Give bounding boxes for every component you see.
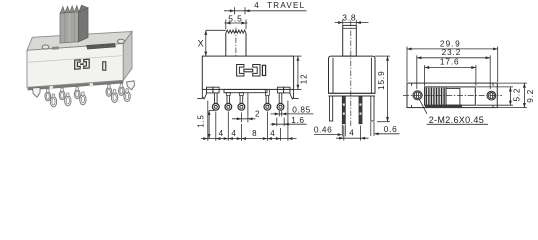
svg-text:4 TRAVEL: 4 TRAVEL <box>254 1 305 10</box>
top view: right screw hole <box>487 91 496 100</box>
isometric view: switch body front face <box>27 44 123 88</box>
isometric view: left mounting ear <box>33 87 41 97</box>
front view: knob right side <box>245 33 247 56</box>
top view dimension: 29.9 overall length <box>406 47 408 83</box>
side view: terminal pin left <box>342 96 345 124</box>
isometric view: right mounting ear <box>127 81 135 90</box>
svg-text:2: 2 <box>255 108 260 118</box>
isometric view: front row terminal pins <box>50 97 56 107</box>
isometric view: screw hole right on top face <box>118 39 125 43</box>
side view: left mounting ear below base <box>330 96 333 121</box>
front view dimension: X height <box>206 29 226 31</box>
top view: 2-M2.6X0.45 thread callout leader <box>419 100 427 114</box>
front view dimension: pin pitch 4 4 8 4 <box>201 138 297 140</box>
svg-text:0.6: 0.6 <box>384 124 398 134</box>
isometric view: cover seam line on front face <box>27 56 123 63</box>
svg-text:5.2: 5.2 <box>513 88 522 102</box>
front view: right ear bent foot <box>294 89 299 98</box>
top view: knob smooth section <box>446 88 460 105</box>
side view: knob <box>343 25 357 56</box>
svg-text:4: 4 <box>270 129 275 138</box>
top view: left screw hole <box>413 91 422 100</box>
front view dimension: 2 offset <box>240 112 242 122</box>
svg-text:5.5: 5.5 <box>228 13 243 23</box>
isometric view: knob shaft right side face <box>79 8 89 42</box>
front view: center base bar <box>224 89 267 92</box>
front view: right mounting ear tab <box>277 87 283 93</box>
isometric view: slot segment left of knob <box>52 46 59 49</box>
side view dimension: 3.8 knob width <box>342 20 344 25</box>
front view dimension: 0.85 pin thickness <box>278 111 280 117</box>
svg-text:X: X <box>198 39 204 49</box>
front view dimension: 5.5 knob width <box>225 20 227 30</box>
front view: knob centerline <box>235 28 237 57</box>
isometric view: switch body top face <box>27 32 132 51</box>
top view dimension: 5.2 slot width <box>476 86 513 88</box>
front view dimension: 1.5 pin length <box>209 109 215 111</box>
svg-text:17.6: 17.6 <box>440 58 460 67</box>
svg-text:12: 12 <box>299 73 308 84</box>
isometric view: I marking on front face <box>103 62 106 70</box>
svg-text:2-M2.6X0.45: 2-M2.6X0.45 <box>429 115 484 125</box>
isometric view: switch body right end face <box>123 32 132 81</box>
isometric view: knob serrated top teeth <box>60 7 65 14</box>
svg-text:3.8: 3.8 <box>342 12 356 22</box>
front view: switch body outline <box>202 56 293 89</box>
front view dimension: 1.6 eyelet width <box>276 118 278 127</box>
front view dimension: 4 TRAVEL <box>224 10 307 12</box>
front view: left ear bent foot <box>197 89 202 98</box>
side view: right mounting ear below base <box>371 96 374 121</box>
top view: slot opening <box>425 87 476 105</box>
svg-text:4: 4 <box>219 129 224 138</box>
isometric view: knob shaft front face <box>60 12 79 43</box>
svg-text:4: 4 <box>231 129 236 138</box>
front view: knob serrated top edge <box>226 30 246 33</box>
top view dimension: 9.2 body width <box>498 82 527 84</box>
front view dimension: 12 body height <box>294 55 302 57</box>
svg-text:0.85: 0.85 <box>292 105 311 115</box>
top view dimension: 23.2 hole spacing <box>416 55 418 89</box>
side view: body outline <box>329 56 376 93</box>
front view: knob left side <box>225 33 227 56</box>
top view dimension: 17.6 slot length <box>424 65 426 86</box>
top view: body outline <box>407 83 497 108</box>
svg-text:1.5: 1.5 <box>196 114 205 127</box>
side view dimension: 15.9 total height <box>375 55 390 57</box>
isometric view: actuator slot on top face <box>87 43 116 49</box>
front view: I marking <box>262 65 265 75</box>
isometric view: screw hole left on top face <box>42 45 49 49</box>
svg-text:4: 4 <box>349 127 354 137</box>
top view: horizontal centerline <box>403 94 502 96</box>
side view: terminal pin right <box>359 96 362 124</box>
isometric view: back row terminal pins <box>45 92 51 101</box>
front view: H marking <box>237 65 244 77</box>
side view: inner wall lines <box>332 58 334 94</box>
front view: terminal pins with eyelets <box>214 93 216 103</box>
svg-text:9.2: 9.2 <box>526 89 535 103</box>
svg-text:1.6: 1.6 <box>291 115 304 125</box>
front view: left mounting ear tab <box>207 87 213 93</box>
svg-text:15.9: 15.9 <box>377 70 386 90</box>
isometric view: bottom shadow strip under body <box>28 81 124 91</box>
svg-text:23.2: 23.2 <box>442 48 462 57</box>
top view: knob shadow strip <box>425 105 462 108</box>
top view: knob knurled section with hatching <box>425 87 447 105</box>
svg-text:29.9: 29.9 <box>440 39 461 48</box>
side view dimension: 4 pin spacing <box>343 126 345 141</box>
side view: centerline <box>350 21 352 128</box>
top view: flange notch ticks <box>411 83 413 86</box>
isometric view: H marking on front face <box>75 60 81 69</box>
svg-text:8: 8 <box>252 129 257 138</box>
side view: base flange line <box>329 95 376 97</box>
isometric view: knob shaft streak lines <box>64 14 66 43</box>
svg-text:0.46: 0.46 <box>314 125 332 135</box>
